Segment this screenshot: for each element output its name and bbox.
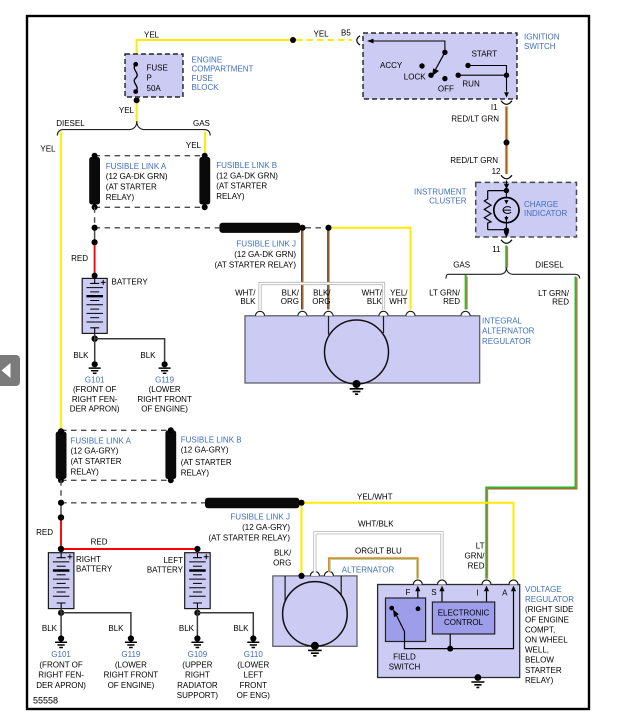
left collapse tab (0, 355, 20, 386)
ground G110 (247, 635, 259, 647)
node lower link A top (58, 428, 64, 434)
svg-text:BLK: BLK (179, 624, 195, 633)
svg-text:WHT/BLK: WHT/BLK (358, 520, 394, 529)
svg-text:G110: G110 (244, 650, 264, 659)
svg-text:LEFT: LEFT (163, 556, 183, 565)
svg-text:(12 GA-GRY): (12 GA-GRY) (242, 523, 290, 532)
wire dashed lower link A-B bottom (61, 479, 171, 481)
svg-text:SWITCH: SWITCH (524, 42, 556, 51)
node lower J right end (299, 500, 305, 506)
voltage regulator box (378, 585, 520, 678)
wire YEL gas branch (204, 132, 206, 155)
svg-text:(AT STARTER: (AT STARTER (181, 458, 232, 467)
wire BLK branch to G119 (95, 339, 165, 362)
node lower link B bottom (168, 477, 174, 483)
ignition wiper arm (436, 52, 445, 69)
field switch box (386, 598, 426, 642)
svg-text:ENGINE: ENGINE (192, 55, 223, 64)
svg-text:BLOCK: BLOCK (192, 83, 220, 92)
svg-text:(AT STARTER: (AT STARTER (216, 182, 267, 191)
node lower link A bottom (58, 477, 64, 483)
svg-text:G109: G109 (188, 650, 208, 659)
svg-text:YEL/WHT: YEL/WHT (357, 493, 393, 502)
svg-text:IGNITION: IGNITION (524, 33, 560, 42)
svg-text:RADIATOR: RADIATOR (177, 681, 218, 690)
svg-text:LOCK: LOCK (404, 72, 426, 81)
terminal F line (417, 590, 419, 609)
alternator circle (integral) (325, 320, 389, 384)
svg-text:FUSE: FUSE (192, 74, 213, 83)
node link B bottom (202, 204, 208, 210)
wire YEL/WHT to integral alternator (329, 228, 411, 310)
svg-text:RED: RED (91, 538, 108, 547)
svg-text:YEL: YEL (144, 31, 160, 40)
svg-text:YEL: YEL (40, 144, 56, 153)
wire WHT/BLK jumper (260, 284, 384, 311)
svg-text:(AT STARTER RELAY): (AT STARTER RELAY) (215, 260, 297, 269)
svg-text:REGULATOR: REGULATOR (525, 595, 574, 604)
svg-text:RED: RED (468, 562, 485, 571)
svg-text:YEL: YEL (119, 106, 135, 115)
wire BLK to G101 (94, 333, 96, 361)
svg-text:RIGHT FRONT: RIGHT FRONT (137, 395, 192, 404)
wire BLK branch to G119 (lower) (61, 613, 131, 636)
wire dashed lower J row (61, 502, 205, 504)
node J right end (overlay) (300, 225, 306, 231)
pin loop BLK/ORG 2 (324, 311, 333, 316)
svg-text:RED: RED (36, 528, 53, 537)
svg-text:50A: 50A (147, 84, 162, 93)
wire LT GRN/RED gas branch (466, 275, 468, 310)
svg-text:ACCY: ACCY (380, 61, 403, 70)
svg-text:LT: LT (476, 542, 485, 551)
wire BLK to G101 (lower) (60, 609, 62, 636)
svg-text:DIESEL: DIESEL (535, 261, 564, 270)
svg-text:RED: RED (71, 254, 88, 263)
cluster entry arrowhead (504, 184, 509, 190)
svg-text:BLK: BLK (233, 624, 249, 633)
node OFF (442, 76, 447, 81)
svg-text:BLK: BLK (367, 297, 383, 306)
node above lower RED (58, 514, 64, 520)
svg-text:OF ENG): OF ENG) (237, 691, 271, 700)
svg-text:(AT STARTER: (AT STARTER (106, 183, 157, 192)
lamp filament glyph (503, 207, 512, 214)
node ACCY (419, 63, 424, 68)
svg-text:ORG/LT BLU: ORG/LT BLU (355, 547, 402, 556)
node charge indicator bottom (504, 228, 509, 233)
node lower link B top (168, 427, 174, 433)
svg-text:RIGHT FEN-: RIGHT FEN- (72, 395, 118, 404)
svg-text:A: A (502, 589, 508, 598)
resistor shunt (484, 191, 506, 230)
node RED/LT GRN junction (504, 140, 510, 146)
svg-text:REGULATOR: REGULATOR (482, 337, 531, 346)
svg-text:(12 GA-DK GRN): (12 GA-DK GRN) (216, 171, 278, 180)
svg-text:(12 GA-DK GRN): (12 GA-DK GRN) (234, 250, 296, 259)
node left battery positive (194, 546, 200, 552)
wire RUN to output (458, 74, 506, 76)
lamp entry arrowhead (504, 200, 508, 204)
svg-text:12: 12 (492, 167, 501, 176)
pin loop BLK/ORG 1 (298, 311, 307, 316)
ignition switch feed line (368, 41, 445, 52)
svg-text:RED/LT GRN: RED/LT GRN (450, 156, 498, 165)
node right battery positive (58, 546, 64, 552)
node ignition wiper pivot (442, 50, 447, 55)
svg-text:BATTERY: BATTERY (112, 277, 149, 286)
connector 12 (501, 175, 512, 179)
svg-text:INDICATOR: INDICATOR (524, 209, 567, 218)
node lower J row left (overlay) (58, 500, 64, 506)
svg-text:BLK: BLK (140, 351, 156, 360)
svg-text:ALTERNATOR: ALTERNATOR (482, 327, 535, 336)
svg-text:GRN/: GRN/ (465, 552, 486, 561)
node run/start junction (504, 73, 509, 78)
engine compartment fuse block box (125, 54, 183, 97)
svg-text:(UPPER: (UPPER (182, 660, 212, 669)
svg-text:BATTERY: BATTERY (76, 565, 113, 574)
node lower J row left (58, 500, 64, 506)
wire RED to right battery (60, 518, 62, 550)
alternator stator stub right (340, 576, 342, 596)
fusible link J (lower) (205, 498, 300, 509)
node lower alternator ground (311, 642, 319, 650)
pin loop I (482, 580, 491, 585)
pin loop S (438, 580, 447, 585)
node J right end (300, 225, 306, 231)
split GAS/DIESEL branch lines (446, 268, 580, 279)
svg-text:B5: B5 (341, 29, 351, 38)
lamp exit wire (505, 216, 507, 230)
node J row left (overlay) (92, 225, 98, 231)
svg-text:OFF: OFF (438, 84, 454, 93)
svg-text:ELECTRONIC: ELECTRONIC (438, 608, 490, 617)
pin loop LT GRN/RED (461, 311, 470, 316)
svg-text:RELAY): RELAY) (71, 468, 100, 477)
integral alternator regulator box (245, 316, 480, 383)
svg-text:G101: G101 (85, 376, 105, 385)
fusible link A (upper) (89, 157, 100, 205)
wire YEL diesel branch (left column) (60, 132, 62, 431)
connector I1 (501, 101, 512, 105)
svg-text:CONTROL: CONTROL (444, 618, 484, 627)
svg-text:RIGHT: RIGHT (185, 671, 210, 680)
svg-text:RUN: RUN (462, 79, 480, 88)
svg-text:SUPPORT): SUPPORT) (177, 691, 219, 700)
wire dashed J row (95, 227, 220, 229)
wire dashed from link A to J row (94, 207, 96, 228)
svg-text:FUSIBLE LINK A: FUSIBLE LINK A (71, 436, 132, 445)
instrument cluster box (476, 182, 577, 237)
ground lower alternator (308, 650, 322, 655)
svg-text:I1: I1 (491, 103, 498, 112)
node right battery negative (58, 610, 64, 616)
wire dashed from lower link A (60, 480, 62, 503)
svg-text:S: S (431, 588, 436, 597)
svg-text:INSTRUMENT: INSTRUMENT (414, 187, 467, 196)
connector 11 (501, 240, 512, 244)
wire RED/LT GRN (506, 107, 508, 175)
svg-text:RED: RED (552, 297, 569, 306)
svg-text:RED: RED (443, 297, 460, 306)
node yellow takeoff (overlay) (326, 225, 332, 231)
svg-text:DER APRON): DER APRON) (70, 404, 120, 413)
svg-text:YEL: YEL (186, 141, 202, 150)
svg-text:(12 GA-GRY): (12 GA-GRY) (181, 446, 229, 455)
node yellow at alternator case (298, 573, 304, 579)
battery B1 (82, 278, 107, 333)
svg-text:GAS: GAS (193, 119, 210, 128)
node field switch F contact (416, 606, 421, 611)
svg-text:ALTERNATOR: ALTERNATOR (342, 566, 395, 575)
svg-text:(LOWER: (LOWER (237, 660, 269, 669)
pin loop YEL/WHT (406, 311, 415, 316)
svg-text:INTEGRAL: INTEGRAL (482, 317, 523, 326)
wire stub below J node (94, 228, 96, 243)
svg-text:FUSIBLE LINK J: FUSIBLE LINK J (230, 513, 290, 522)
ignition switch feed arrowhead (367, 39, 374, 44)
svg-text:LEFT: LEFT (244, 671, 264, 680)
wire dashed after link J (306, 227, 326, 229)
fuse P 50A symbol (133, 62, 138, 94)
pin loop F (413, 580, 422, 585)
lamp entry wire (505, 191, 507, 199)
charge indicator lamp circle (494, 198, 519, 223)
terminal I line (486, 590, 488, 602)
ground G109 (191, 635, 203, 647)
node field switch contact (389, 606, 394, 611)
svg-text:WELL,: WELL, (525, 646, 549, 655)
split DIESEL/GAS branch lines (57, 121, 210, 136)
ground G119 (upper) (159, 361, 171, 373)
svg-text:11: 11 (492, 245, 501, 254)
wire dashed link A-B bottom (95, 206, 205, 208)
svg-text:FRONT: FRONT (240, 681, 268, 690)
svg-text:OF ENGINE): OF ENGINE) (141, 404, 188, 413)
node regulator case ground (475, 674, 482, 681)
pin loop WHT/BLK 2 (379, 311, 388, 316)
svg-text:FIELD: FIELD (393, 653, 416, 662)
wire ORG/LT BLU to regulator F (329, 558, 418, 578)
node battery negative (92, 336, 98, 342)
svg-text:(FRONT OF: (FRONT OF (73, 385, 117, 394)
wire START to output (468, 66, 507, 92)
svg-text:(12 GA-GRY): (12 GA-GRY) (71, 447, 119, 456)
svg-text:G101: G101 (51, 650, 71, 659)
lamp exit arrowhead (504, 217, 508, 221)
svg-text:RIGHT FEN-: RIGHT FEN- (38, 671, 84, 680)
wire YEL/WHT lower horizontal (302, 503, 514, 579)
node below fuse block (134, 97, 140, 103)
fusible link B (upper) (199, 157, 210, 205)
svg-text:SWITCH: SWITCH (389, 662, 421, 671)
svg-text:P: P (147, 74, 152, 83)
svg-text:FUSIBLE LINK B: FUSIBLE LINK B (181, 435, 242, 444)
fusible link B (lower) (165, 431, 176, 480)
svg-text:55558: 55558 (33, 696, 58, 706)
pin loop A (509, 580, 518, 585)
ground G101 (lower) (55, 635, 67, 647)
node link A top (92, 153, 98, 159)
svg-text:RIGHT: RIGHT (76, 555, 101, 564)
wire YEL below fuse (136, 97, 138, 122)
svg-text:ON WHEEL: ON WHEEL (525, 636, 568, 645)
ignition switch box (363, 33, 517, 99)
svg-text:RELAY): RELAY) (216, 192, 245, 201)
alternator rotor stub right (383, 316, 385, 333)
ground G119 (lower) (125, 635, 137, 647)
cluster exit arrowhead (504, 232, 509, 238)
svg-text:ORG: ORG (312, 297, 330, 306)
svg-text:WHT: WHT (389, 297, 407, 306)
svg-text:(RIGHT SIDE: (RIGHT SIDE (525, 605, 573, 614)
alternator box (lower) (273, 576, 357, 646)
left battery B3 (185, 553, 211, 609)
terminal S line (441, 590, 443, 602)
node integral alternator ground (353, 380, 361, 388)
svg-text:BLK: BLK (42, 624, 58, 633)
wire BLK/ORG 1 (302, 228, 303, 310)
svg-text:DIESEL: DIESEL (56, 119, 85, 128)
svg-text:FUSIBLE LINK A: FUSIBLE LINK A (106, 162, 167, 171)
cluster entry wire (506, 181, 508, 185)
alternator circle (lower) (283, 582, 348, 647)
wire LT GRN/RED from cluster (506, 246, 508, 269)
terminal A line (450, 590, 513, 649)
svg-text:(AT STARTER: (AT STARTER (71, 457, 122, 466)
svg-text:FUSIBLE LINK J: FUSIBLE LINK J (236, 239, 296, 248)
svg-text:BATTERY: BATTERY (147, 566, 184, 575)
pin loop alternator ORG/LT BLU (324, 571, 333, 576)
svg-text:(FRONT OF: (FRONT OF (39, 660, 83, 669)
wire electronic control to bus (449, 634, 451, 649)
svg-text:STARTER: STARTER (525, 666, 562, 675)
right battery B2 (48, 553, 74, 609)
node right battery positive (overlay) (58, 546, 64, 552)
ignition output arrowhead (504, 92, 509, 97)
node lower J right end (overlay) (299, 500, 305, 506)
svg-text:I: I (477, 589, 479, 598)
svg-text:F: F (406, 588, 411, 597)
fusible link J (upper) (219, 223, 300, 233)
svg-text:FUSE: FUSE (147, 64, 168, 73)
svg-text:OF ENGINE: OF ENGINE (525, 615, 569, 624)
node yellow takeoff (326, 225, 332, 231)
wire BLK/ORG drop to alternator (301, 503, 303, 575)
svg-text:START: START (472, 50, 498, 59)
wire stub below lower J node (60, 503, 62, 518)
svg-text:COMPT,: COMPT, (525, 625, 555, 634)
node regulator internal bus (447, 646, 453, 652)
svg-text:OF ENGINE): OF ENGINE) (108, 681, 155, 690)
ground integral alternator (350, 389, 364, 394)
svg-text:G119: G119 (121, 650, 141, 659)
wire field switch to bus (405, 632, 451, 649)
wire RED to left battery (61, 548, 197, 550)
svg-text:BLK: BLK (108, 624, 124, 633)
node RUN (456, 73, 461, 78)
wire BLK/ORG 2 (328, 228, 329, 310)
svg-text:BLK/: BLK/ (274, 548, 292, 557)
svg-text:ORG: ORG (273, 559, 291, 568)
wire RED to battery (94, 242, 96, 275)
svg-text:RELAY): RELAY) (525, 676, 554, 685)
svg-text:(AT STARTER RELAY): (AT STARTER RELAY) (209, 534, 291, 543)
node battery positive (92, 273, 98, 279)
electronic control box (432, 602, 494, 634)
node above RED wire (overlay) (92, 239, 98, 245)
ground G101 (upper) (89, 361, 101, 373)
svg-text:(12 GA-DK GRN): (12 GA-DK GRN) (106, 172, 168, 181)
svg-text:YEL: YEL (314, 30, 330, 39)
wire WHT/BLK to regulator S (315, 533, 442, 579)
wire dashed lower link A-B top (61, 429, 171, 431)
svg-text:CHARGE: CHARGE (524, 200, 558, 209)
wire BLK branch to G110 (197, 613, 253, 636)
wire YEL dashed to ignition switch (296, 39, 352, 41)
node top yellow junction (290, 37, 296, 43)
node charge indicator top (504, 188, 509, 193)
svg-text:G119: G119 (155, 376, 175, 385)
svg-text:FUSIBLE LINK B: FUSIBLE LINK B (216, 161, 277, 170)
svg-text:BLK: BLK (73, 351, 89, 360)
svg-text:RELAY): RELAY) (106, 193, 135, 202)
svg-text:BLK: BLK (240, 297, 256, 306)
node left battery negative (194, 610, 200, 616)
wire LT GRN/RED diesel branch (right column) (486, 277, 577, 579)
alternator rotor stub left (328, 316, 330, 335)
svg-text:ORG: ORG (281, 297, 299, 306)
svg-text:BELOW: BELOW (525, 656, 554, 665)
wire YEL top horizontal from fuse to junction (137, 40, 293, 63)
field switch blade (397, 616, 405, 632)
node link A bottom (92, 204, 98, 210)
node J row left (92, 225, 98, 231)
alternator stator stub left (284, 576, 286, 602)
node LOCK (428, 73, 433, 78)
svg-text:COMPARTMENT: COMPARTMENT (192, 65, 254, 74)
svg-text:(LOWER: (LOWER (115, 660, 147, 669)
svg-text:GAS: GAS (453, 261, 470, 270)
svg-text:RIGHT FRONT: RIGHT FRONT (104, 671, 159, 680)
svg-text:RED/LT GRN: RED/LT GRN (451, 115, 499, 124)
wire dashed link A-B top (95, 155, 205, 157)
node link B top (202, 153, 208, 159)
pin loop WHT/BLK 1 (256, 311, 265, 316)
svg-text:RELAY): RELAY) (181, 468, 210, 477)
node START (465, 63, 470, 68)
connector B5 (357, 36, 360, 45)
fusible link A (lower) (56, 432, 67, 480)
node above lower RED (overlay) (58, 514, 64, 520)
pin loop alternator WHT/BLK (310, 571, 319, 576)
svg-text:CLUSTER: CLUSTER (429, 197, 467, 206)
svg-text:VOLTAGE: VOLTAGE (525, 585, 562, 594)
svg-text:(LOWER: (LOWER (149, 385, 181, 394)
wire BLK to G109 (196, 609, 198, 636)
ground voltage regulator (471, 682, 484, 687)
svg-text:DER APRON): DER APRON) (36, 681, 86, 690)
node above RED wire (92, 239, 98, 245)
